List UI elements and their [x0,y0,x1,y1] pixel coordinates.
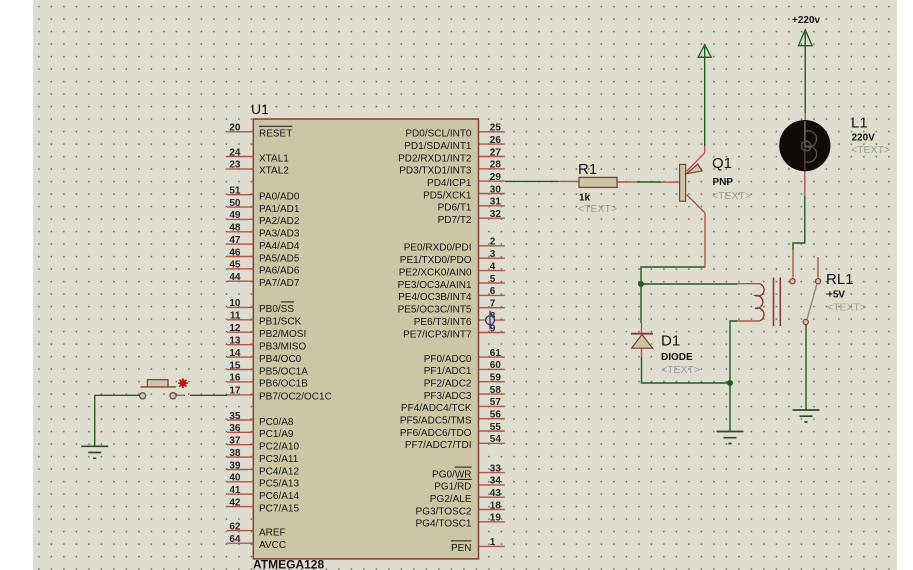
svg-text:R1: R1 [578,161,597,178]
svg-text:58: 58 [490,385,502,396]
svg-text:PC7/A15: PC7/A15 [259,503,299,514]
svg-text:46: 46 [229,247,241,258]
svg-text:PEN: PEN [451,543,472,554]
svg-text:PC0/A8: PC0/A8 [259,417,294,428]
svg-text:PD4/ICP1: PD4/ICP1 [427,178,472,189]
svg-text:PD6/T1: PD6/T1 [438,203,472,214]
svg-text:31: 31 [490,197,502,208]
svg-text:17: 17 [229,386,241,397]
svg-text:57: 57 [490,397,502,408]
svg-text:PG1/RD: PG1/RD [434,482,471,493]
svg-text:PE4/OC3B/INT4: PE4/OC3B/INT4 [398,292,472,303]
svg-text:1: 1 [490,537,496,548]
svg-text:PC6/A14: PC6/A14 [259,491,299,502]
svg-text:PA6/AD6: PA6/AD6 [259,266,300,277]
svg-text:PG4/TOSC1: PG4/TOSC1 [416,519,472,530]
svg-text:RL1: RL1 [826,271,854,288]
svg-text:34: 34 [490,476,502,487]
svg-text:PF4/ADC4/TCK: PF4/ADC4/TCK [401,403,472,414]
svg-text:23: 23 [229,160,241,171]
svg-text:AREF: AREF [259,527,286,538]
svg-text:5: 5 [490,274,496,285]
svg-text:32: 32 [490,209,502,220]
svg-text:51: 51 [229,186,241,197]
svg-text:12: 12 [229,323,241,334]
svg-text:PF1/ADC1: PF1/ADC1 [424,366,472,377]
svg-text:62: 62 [229,521,241,532]
svg-text:7: 7 [490,299,496,310]
svg-text:PD5/XCK1: PD5/XCK1 [423,190,472,201]
svg-text:PA7/AD7: PA7/AD7 [259,278,300,289]
svg-text:59: 59 [490,373,502,384]
svg-text:PE0/RXD0/PDI: PE0/RXD0/PDI [404,243,472,254]
svg-text:49: 49 [229,210,241,221]
svg-text:37: 37 [229,436,241,447]
svg-text:D1: D1 [661,333,680,350]
svg-text:25: 25 [490,123,502,134]
svg-text:47: 47 [229,235,241,246]
svg-text:PE3/OC3A/AIN1: PE3/OC3A/AIN1 [398,280,472,291]
svg-text:PE1/TXD0/PDO: PE1/TXD0/PDO [400,255,472,266]
svg-text:PC5/A13: PC5/A13 [259,479,299,490]
svg-text:11: 11 [230,311,241,322]
svg-text:28: 28 [490,160,502,171]
svg-text:Q1: Q1 [712,155,732,172]
svg-text:AVCC: AVCC [259,540,286,551]
svg-text:L1: L1 [851,115,868,132]
svg-text:1k: 1k [579,193,591,204]
svg-text:DIODE: DIODE [661,352,693,363]
svg-text:36: 36 [229,423,241,434]
svg-text:27: 27 [490,147,502,158]
svg-text:35: 35 [229,411,241,422]
svg-text:40: 40 [229,473,241,484]
svg-text:3: 3 [490,249,496,260]
svg-text:PA2/AD2: PA2/AD2 [259,216,300,227]
svg-text:PE2/XCK0/AIN0: PE2/XCK0/AIN0 [399,267,472,278]
svg-text:43: 43 [490,488,502,499]
svg-text:<TEXT>: <TEXT> [827,302,866,314]
svg-text:PD3/TXD1/INT3: PD3/TXD1/INT3 [399,166,472,177]
svg-text:15: 15 [229,360,241,371]
svg-text:64: 64 [229,534,241,545]
svg-text:PC3/A11: PC3/A11 [259,454,299,465]
svg-text:PE6/T3/INT6: PE6/T3/INT6 [414,317,472,328]
svg-text:20: 20 [229,123,241,134]
svg-text:<TEXT>: <TEXT> [661,364,700,376]
svg-text:PA4/AD4: PA4/AD4 [259,241,300,252]
svg-text:U1: U1 [251,101,269,117]
svg-text:60: 60 [490,360,502,371]
svg-text:14: 14 [229,348,241,359]
svg-text:PF5/ADC5/TMS: PF5/ADC5/TMS [400,416,472,427]
svg-text:50: 50 [229,198,241,209]
svg-text:<TEXT>: <TEXT> [712,190,751,202]
svg-text:PF6/ADC6/TDO: PF6/ADC6/TDO [400,428,472,439]
svg-text:PA1/AD1: PA1/AD1 [259,204,300,215]
svg-text:PC4/A12: PC4/A12 [259,466,299,477]
svg-text:PE7/ICP3/INT7: PE7/ICP3/INT7 [403,329,472,340]
svg-text:PF7/ADC7/TDI: PF7/ADC7/TDI [405,440,472,451]
svg-text:PB2/MOSI: PB2/MOSI [259,329,306,340]
svg-text:PC2/A10: PC2/A10 [259,442,299,453]
svg-text:42: 42 [229,497,241,508]
svg-text:PD0/SCL/INT0: PD0/SCL/INT0 [405,129,472,140]
svg-text:26: 26 [490,135,502,146]
svg-text:PF0/ADC0: PF0/ADC0 [424,354,472,365]
svg-text:XTAL1: XTAL1 [259,153,289,164]
svg-text:39: 39 [229,460,241,471]
svg-text:XTAL2: XTAL2 [259,166,289,177]
svg-text:13: 13 [229,336,241,347]
svg-text:56: 56 [490,410,502,421]
svg-text:ATMEGA128: ATMEGA128 [253,558,324,570]
svg-text:30: 30 [490,184,502,195]
svg-text:PA0/AD0: PA0/AD0 [259,192,300,203]
svg-text:29: 29 [490,172,502,183]
svg-text:PE5/OC3C/INT5: PE5/OC3C/INT5 [398,305,472,316]
svg-text:45: 45 [229,260,241,271]
svg-text:54: 54 [490,434,502,445]
svg-text:PG2/ALE: PG2/ALE [430,494,472,505]
svg-text:PB6/OC1B: PB6/OC1B [259,379,308,390]
svg-text:33: 33 [490,463,502,474]
svg-text:<TEXT>: <TEXT> [578,203,617,215]
svg-text:10: 10 [229,298,241,309]
svg-text:24: 24 [229,147,241,158]
svg-text:PB1/SCK: PB1/SCK [259,317,302,328]
svg-text:18: 18 [490,500,502,511]
svg-text:PB5/OC1A: PB5/OC1A [259,366,308,377]
svg-text:PG3/TOSC2: PG3/TOSC2 [416,506,472,517]
svg-text:41: 41 [229,485,241,496]
svg-text:2: 2 [490,237,496,248]
svg-text:48: 48 [229,223,241,234]
svg-text:4: 4 [490,261,496,272]
svg-text:+220v: +220v [792,15,821,26]
svg-text:PF3/ADC3: PF3/ADC3 [424,391,472,402]
svg-text:PA3/AD3: PA3/AD3 [259,229,300,240]
svg-text:PB3/MISO: PB3/MISO [259,342,306,353]
svg-text:16: 16 [229,373,241,384]
svg-text:PF2/ADC2: PF2/ADC2 [424,379,472,390]
svg-text:<TEXT>: <TEXT> [851,144,890,156]
svg-text:44: 44 [229,272,241,283]
svg-text:PB7/OC2/OC1C: PB7/OC2/OC1C [259,392,332,403]
svg-text:19: 19 [490,513,502,524]
svg-text:PA5/AD5: PA5/AD5 [259,253,300,264]
svg-text:RESET: RESET [259,129,292,140]
svg-text:PNP: PNP [713,177,734,188]
svg-text:PD2/RXD1/INT2: PD2/RXD1/INT2 [398,153,472,164]
svg-text:+5V: +5V [827,290,845,301]
svg-text:PB0/SS: PB0/SS [259,304,294,315]
svg-text:PG0/WR: PG0/WR [432,469,471,480]
svg-text:220V: 220V [852,133,876,144]
svg-text:6: 6 [490,286,496,297]
svg-text:PD7/T2: PD7/T2 [438,215,472,226]
svg-text:PC1/A9: PC1/A9 [259,429,294,440]
svg-text:61: 61 [490,348,502,359]
svg-text:55: 55 [490,422,502,433]
svg-text:PD1/SDA/INT1: PD1/SDA/INT1 [404,141,472,152]
svg-text:38: 38 [229,448,241,459]
svg-text:PB4/OC0: PB4/OC0 [259,354,302,365]
